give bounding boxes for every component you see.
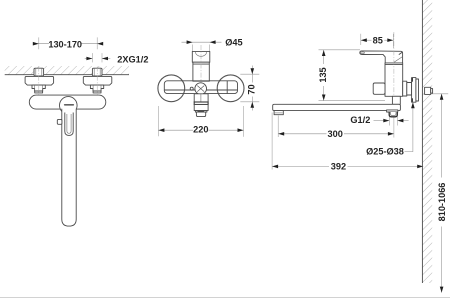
bar right end cap line (226, 81, 228, 93)
svg-text:220: 220 (193, 125, 208, 135)
logo bar (64, 104, 74, 106)
right escutcheon flange (83, 76, 111, 85)
lever inner diagonal (394, 57, 402, 63)
spout neck (392, 96, 400, 104)
svg-text:300: 300 (328, 129, 343, 139)
body bar (top view) (164, 81, 237, 94)
dim 85 (361, 34, 394, 48)
dim 300 (278, 116, 394, 139)
bar mid parting line (165, 89, 238, 91)
dim 2XG1/2 (85, 53, 149, 64)
cartridge dome circle with cross (195, 83, 207, 95)
svg-text:130-170: 130-170 (48, 40, 82, 50)
dim Ø45 (182, 38, 243, 51)
spout dark collar band (194, 102, 208, 105)
lever (side) (360, 51, 403, 63)
flange plate at wall (416, 79, 419, 101)
dim 70 (240, 66, 259, 111)
spout tube (front, long, down) (62, 109, 76, 226)
svg-text:135: 135 (318, 67, 328, 82)
body (side) (385, 63, 403, 96)
right supply square G1/2 (92, 68, 102, 76)
right axis center line (96, 67, 98, 95)
label G1/2 with dim (350, 115, 408, 125)
lever tip oval (361, 52, 365, 54)
left mounting nut (32, 85, 45, 91)
svg-text:G1/2: G1/2 (350, 115, 370, 125)
svg-text:2XG1/2: 2XG1/2 (117, 55, 148, 65)
aerator slot band (195, 111, 207, 113)
ceiling wall line (5, 74, 129, 76)
column center line (200, 45, 202, 95)
dim 810-1066 (431, 94, 448, 293)
wall hatch band (422, 0, 432, 283)
long spout (side) (273, 104, 401, 110)
svg-text:392: 392 (331, 162, 346, 172)
left supply square G1/2 (34, 68, 44, 76)
dim 135 (318, 50, 385, 101)
left escutcheon flange (25, 76, 54, 85)
left escutcheon circle (top) (158, 75, 185, 102)
connect ring (407, 83, 412, 96)
right escutcheon circle (top) (217, 75, 244, 102)
spout mid block (194, 105, 208, 111)
handle end (top view) (192, 51, 210, 62)
diverter knob (front) (57, 119, 62, 124)
dim 392 (272, 113, 423, 172)
spout outlet nub (274, 111, 283, 115)
handle grip arc (195, 52, 207, 56)
shower outlet under body (387, 110, 398, 112)
dim 130-170 (33, 37, 103, 49)
shower outlet G1/2 nipple (389, 112, 397, 117)
aerator cap (196, 112, 205, 117)
svg-text:85: 85 (373, 36, 383, 46)
cartridge circle with logo (60, 97, 78, 115)
spout stub (top view, pointing to viewer) (194, 94, 208, 102)
right mounting nut (90, 85, 103, 91)
left axis center line (38, 67, 40, 95)
svg-text:70: 70 (246, 84, 256, 94)
page bottom border (0, 297, 450, 299)
ceiling hatch band (5, 66, 129, 75)
svg-text:Ø45: Ø45 (225, 38, 242, 48)
svg-text:Ø25-Ø38: Ø25-Ø38 (366, 147, 404, 157)
label Ø25-Ø38 with leader (366, 102, 415, 157)
diverter knob (side) (373, 83, 385, 94)
wall face line (421, 0, 423, 283)
wall flange Ø25-Ø38 (412, 78, 416, 103)
handle lever loop (front) (65, 113, 73, 136)
svg-text:810-1066: 810-1066 (437, 183, 447, 222)
supply pipe in wall (425, 87, 431, 94)
handle cap ring (385, 64, 403, 66)
faucet body bar (front) (29, 95, 106, 109)
small screw circle (190, 87, 193, 90)
handle column (193, 62, 209, 81)
dim 220 (158, 106, 243, 137)
wall cylinder (403, 81, 407, 96)
body center line (393, 32, 395, 101)
